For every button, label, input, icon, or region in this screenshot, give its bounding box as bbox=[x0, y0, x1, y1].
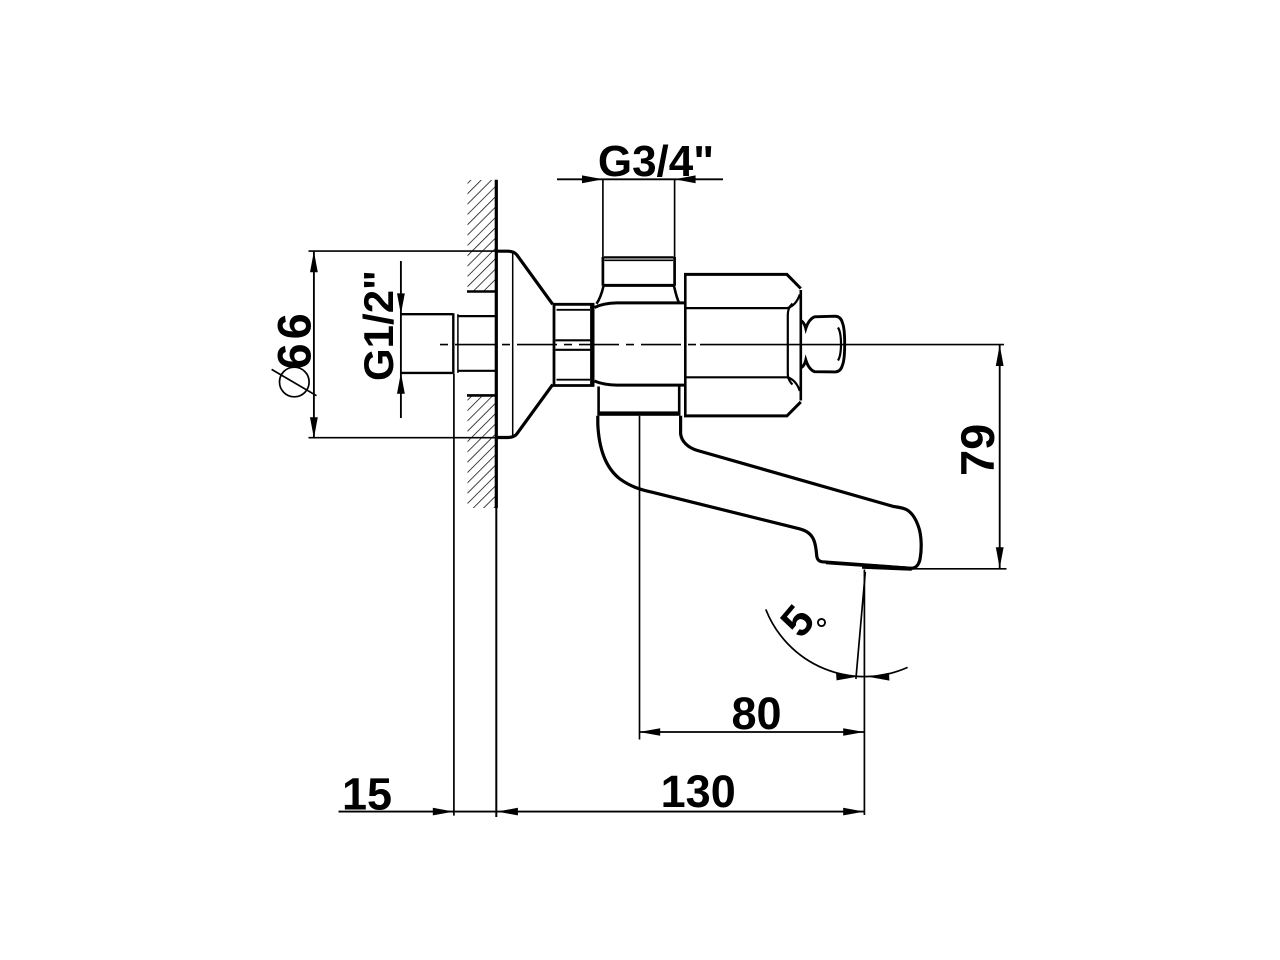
dimension G3/4 left extension bbox=[602, 179, 604, 257]
inlet pipe G1/2 section 1 bottom bbox=[401, 372, 453, 374]
dimension G1/2 top arrow bbox=[397, 293, 405, 314]
hex cap top edge with chamfer bbox=[684, 274, 801, 288]
spout outlet lip line bbox=[862, 568, 912, 570]
dimension 79 bottom arrow bbox=[996, 547, 1004, 568]
hex cap facet top line bbox=[685, 295, 800, 309]
dimension 80 right arrow bbox=[843, 728, 864, 736]
inlet pipe section 2 top bbox=[458, 315, 496, 317]
inlet pipe section 2 bottom bbox=[458, 370, 496, 372]
spout outlet face line bbox=[826, 563, 912, 569]
svg-text:130: 130 bbox=[661, 766, 736, 817]
inlet pipe end face line 2 bbox=[457, 314, 459, 373]
union nut inner line c bbox=[556, 349, 592, 351]
angle 5deg left arrow bbox=[836, 673, 857, 681]
dimension 15 left arrow bbox=[433, 808, 454, 816]
flange plate top edge and cone upper slant bbox=[497, 251, 553, 304]
svg-text:G1/2": G1/2" bbox=[355, 270, 402, 381]
dimension 80 left arrow bbox=[639, 728, 660, 736]
wall face line bbox=[495, 180, 498, 508]
G3/4 stub left side bbox=[602, 257, 605, 286]
G3/4 stub right flare bbox=[674, 286, 679, 302]
dimension 80 line bbox=[639, 731, 864, 733]
wall hole top edge bbox=[467, 290, 497, 293]
union nut inner line b bbox=[556, 339, 592, 341]
spout tip vertical extension line bbox=[863, 570, 865, 816]
G3/4 stub cap lower line bbox=[604, 259, 673, 261]
dimension dia66 upper extension bbox=[309, 250, 498, 252]
union nut inner line a bbox=[557, 309, 591, 311]
union nut right edge bbox=[590, 303, 594, 387]
dimension 79 line bbox=[999, 345, 1001, 569]
svg-text:15: 15 bbox=[342, 769, 392, 820]
wall face extension line bbox=[495, 508, 497, 817]
dimension dia66 lower extension bbox=[309, 437, 498, 439]
dimension G3/4 right arrow bbox=[675, 175, 696, 183]
degree symbol bbox=[818, 619, 825, 626]
svg-text:79: 79 bbox=[951, 424, 1004, 476]
dimension G3/4 left arrow bbox=[582, 175, 603, 183]
diameter symbol circle bbox=[280, 367, 310, 397]
svg-text:66: 66 bbox=[268, 309, 321, 369]
dimension dia66 line bbox=[313, 251, 315, 438]
dimension dia66 top arrow bbox=[310, 251, 318, 272]
dimension 130 left arrow bbox=[497, 808, 518, 816]
dimension G1/2 bottom arrow bbox=[397, 373, 405, 394]
angle 5deg arc bbox=[766, 609, 908, 676]
hex cap facet vertical line bbox=[788, 304, 793, 385]
union nut inner line d bbox=[557, 379, 591, 381]
dimension G1/2 line bbox=[400, 261, 402, 418]
hex cap facet bottom line bbox=[685, 377, 800, 391]
diameter symbol slash bbox=[272, 369, 317, 395]
G3/4 stub left flare bbox=[597, 286, 604, 304]
union nut bottom edge bbox=[553, 384, 594, 387]
union nut left edge bbox=[553, 303, 556, 387]
spout shoulder left side bbox=[597, 387, 600, 412]
inlet pipe end face line 1 bbox=[452, 313, 454, 374]
dimension 130 and 15 line bbox=[339, 811, 865, 813]
handle knob outline bbox=[801, 316, 845, 372]
hex cap left edge bbox=[684, 274, 687, 416]
dimension G3/4 line bbox=[557, 178, 723, 180]
flange plate bottom edge and cone lower slant bbox=[497, 385, 553, 438]
dimension 80 left extension bbox=[639, 416, 641, 740]
spout shoulder right side bbox=[678, 387, 681, 412]
dimension 79 top arrow bbox=[996, 345, 1004, 366]
hex cap bottom edge with chamfer bbox=[684, 402, 801, 416]
hex cap right edge bbox=[799, 290, 802, 401]
wall hatch upper bbox=[468, 180, 496, 292]
dimension G3/4 right extension bbox=[674, 179, 676, 257]
spout outline bbox=[598, 416, 921, 569]
dimension 130 right arrow bbox=[843, 808, 864, 816]
wall left extension line bbox=[453, 374, 455, 816]
angle 5deg tilted line bbox=[856, 572, 865, 679]
wall hole bottom edge bbox=[467, 394, 497, 397]
dimension dia66 bottom arrow bbox=[310, 417, 318, 438]
svg-text:80: 80 bbox=[731, 688, 781, 739]
flange plate inner vertical line bbox=[512, 253, 514, 437]
G3/4 stub bottom thick line bbox=[603, 284, 675, 287]
inlet pipe G1/2 section 1 top bbox=[401, 313, 453, 315]
angle 5deg right arrow bbox=[868, 673, 889, 681]
centerline bbox=[440, 344, 700, 346]
handle knob face arc bbox=[838, 328, 841, 361]
spout shoulder thick bar bbox=[597, 411, 680, 415]
valve body top edge bbox=[595, 303, 685, 308]
G3/4 stub cap top line bbox=[604, 256, 674, 258]
valve body bottom edge bbox=[595, 381, 685, 385]
wall hatch lower bbox=[468, 395, 496, 508]
G3/4 stub right side bbox=[673, 257, 676, 286]
dimension 79 lower extension bbox=[912, 568, 1007, 570]
union nut top edge bbox=[553, 303, 594, 306]
